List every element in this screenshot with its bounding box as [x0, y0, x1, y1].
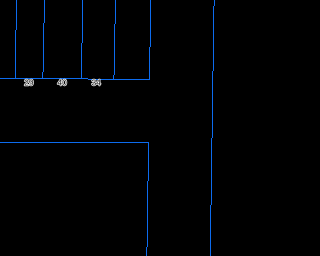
wire pin stub 4	[113, 0, 116, 79]
wire pin stub 3	[81, 0, 83, 79]
wire lower horizontal	[0, 142, 149, 143]
svg-text:40: 40	[57, 78, 67, 88]
wire lower drop	[146, 143, 149, 256]
wire long right vertical	[210, 0, 215, 256]
wire pin stub 2	[42, 0, 45, 78]
svg-text:29: 29	[24, 78, 34, 88]
wire bus horizontal	[0, 78, 150, 80]
svg-text:34: 34	[91, 78, 101, 88]
wire bus riser	[149, 0, 151, 80]
wire pin stub 1	[15, 0, 17, 78]
